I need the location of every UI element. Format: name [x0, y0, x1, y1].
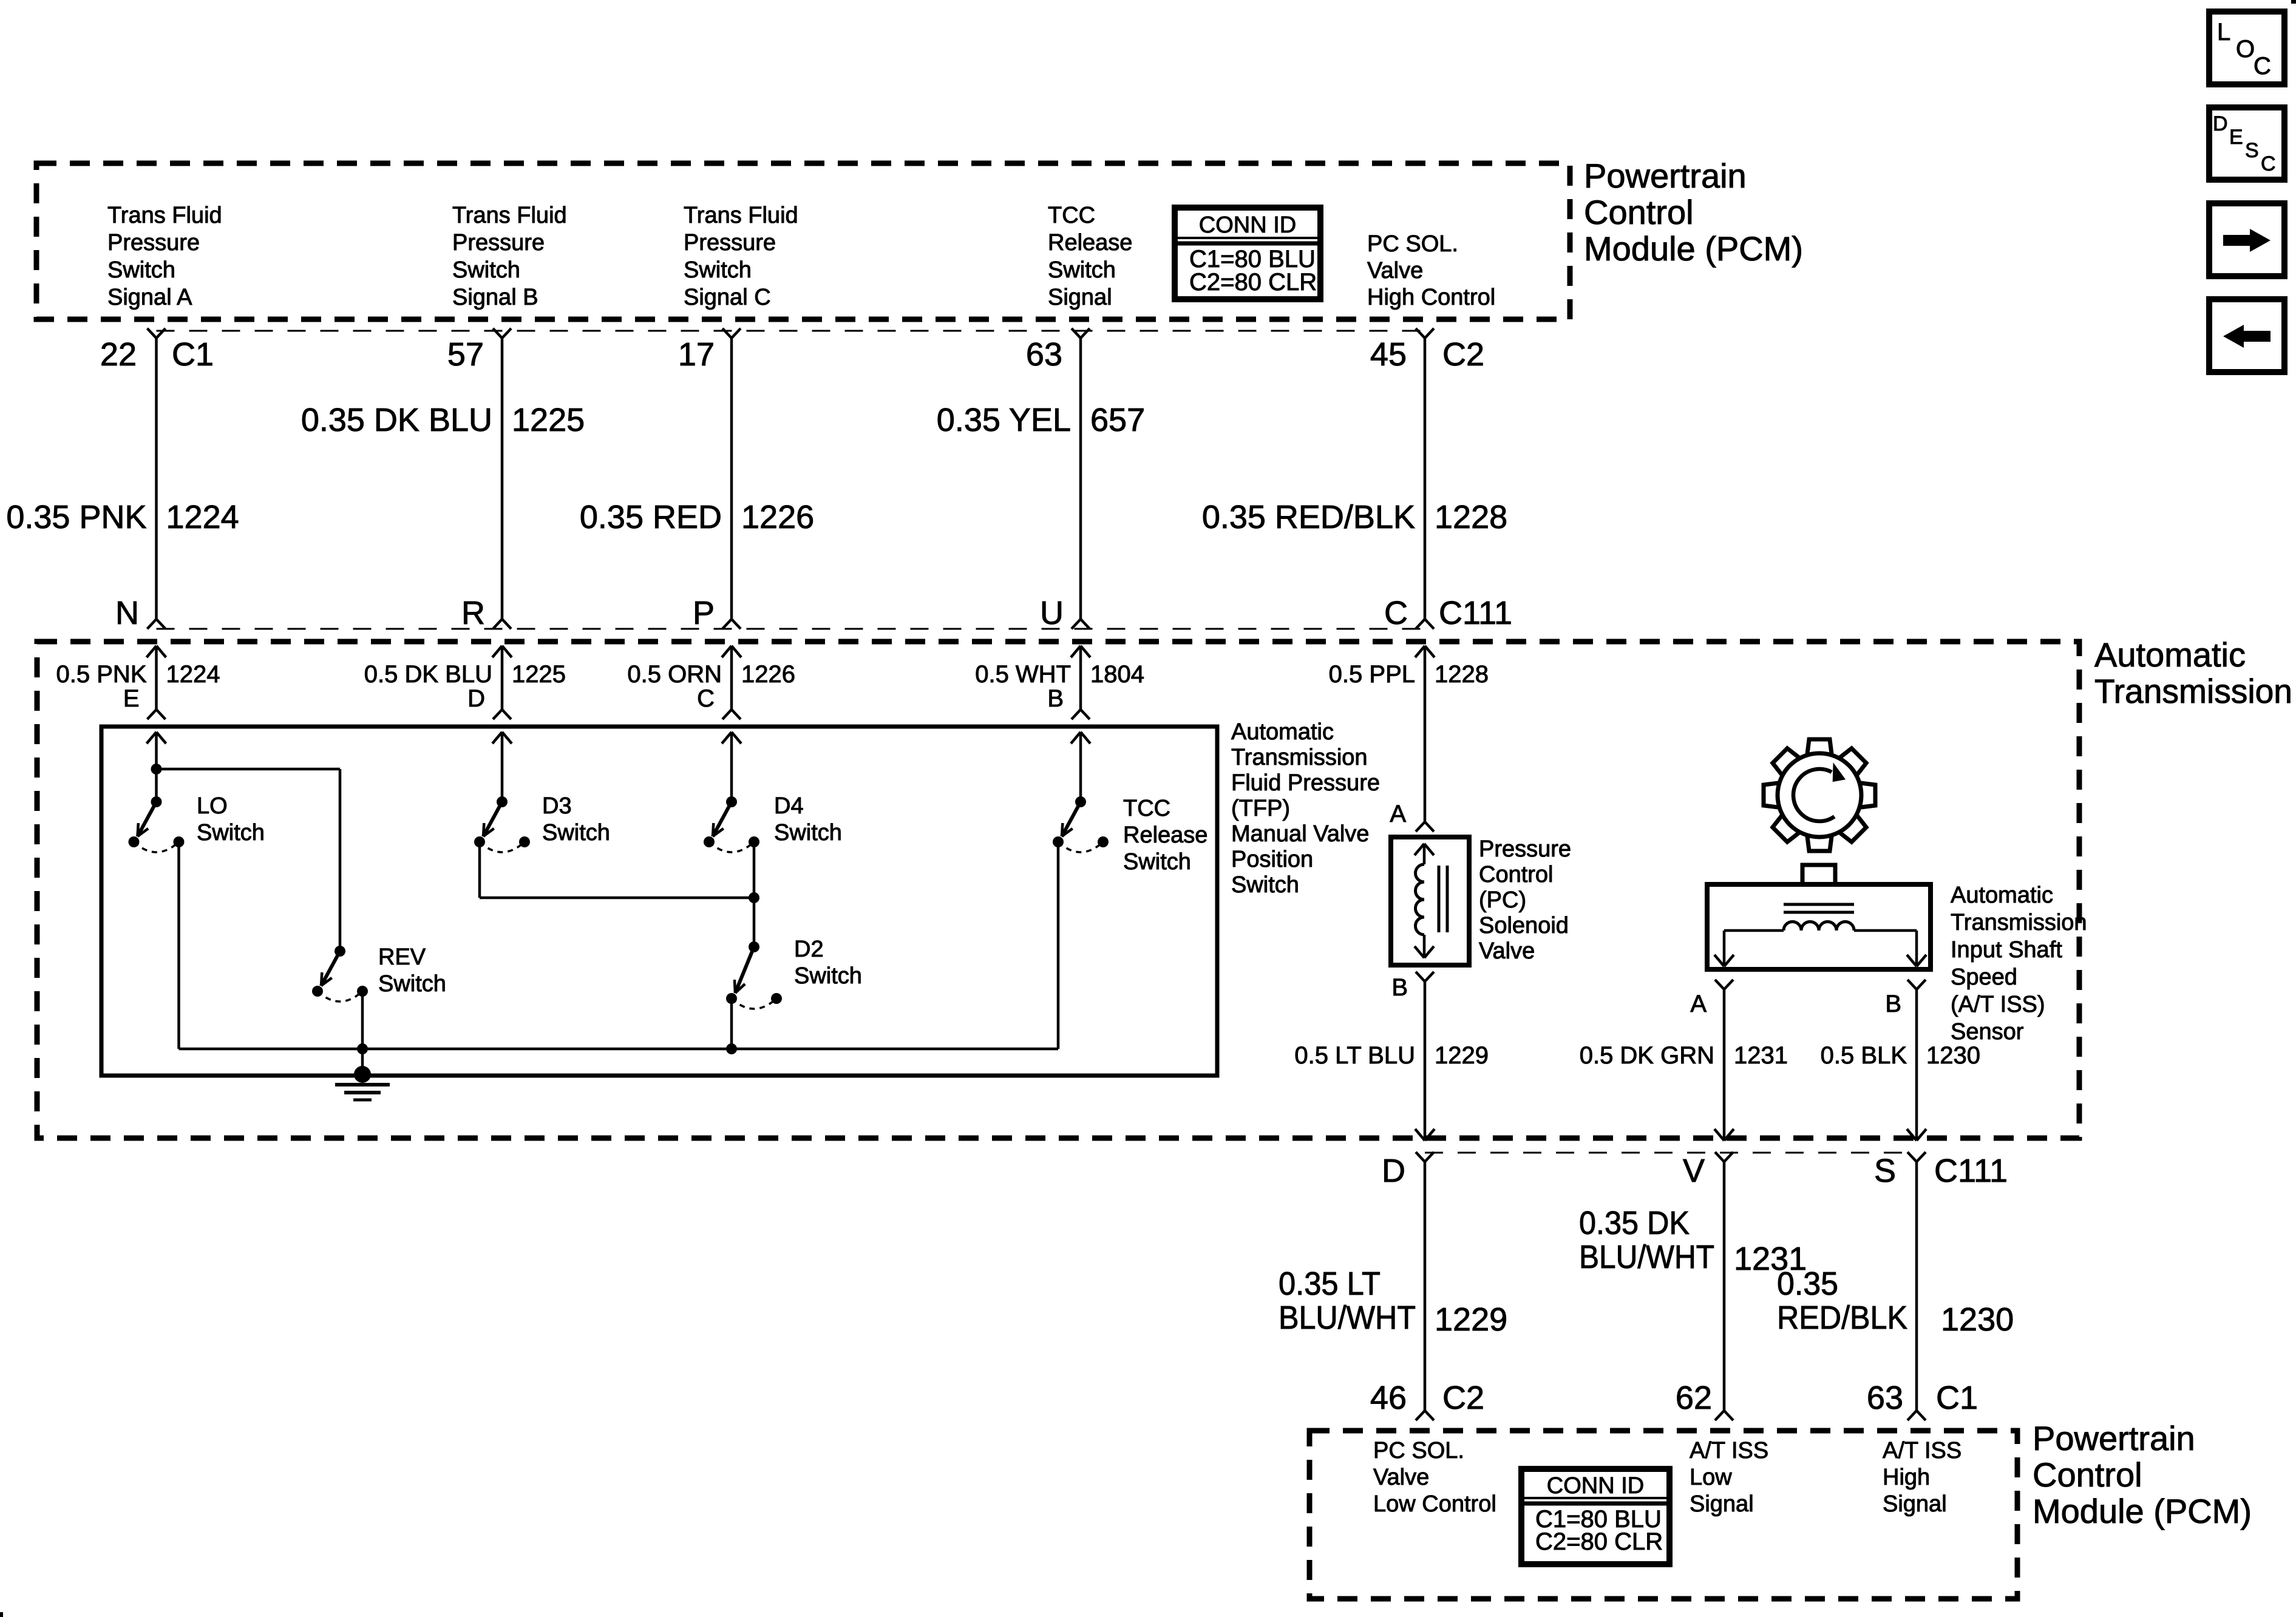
svg-text:0.35 DK: 0.35 DK: [1579, 1205, 1690, 1241]
svg-text:D3: D3: [542, 793, 572, 819]
label 0.35 LT BLU/WHT 1229: [1279, 1266, 1507, 1338]
svg-text:0.35 DK BLU: 0.35 DK BLU: [301, 402, 492, 438]
label Pressure Control (PC) Solenoid Valve: [1479, 836, 1571, 964]
svg-text:1226: 1226: [741, 499, 814, 535]
svg-text:Fluid Pressure: Fluid Pressure: [1231, 770, 1380, 796]
label PC SOL. Valve High Control: [1367, 231, 1495, 310]
svg-text:Switch: Switch: [197, 820, 265, 846]
label 0.35 DK BLU/WHT 1231: [1579, 1205, 1807, 1277]
wire 0.5 WHT 1804 / pin B: [1071, 646, 1090, 719]
icon box DESC: [2209, 107, 2284, 180]
svg-text:0.5 DK GRN: 0.5 DK GRN: [1580, 1042, 1714, 1069]
svg-text:Manual Valve: Manual Valve: [1231, 821, 1369, 847]
svg-text:C2: C2: [1442, 1380, 1484, 1416]
A/T ISS sensor core and coil: [1714, 904, 1926, 966]
svg-text:Solenoid: Solenoid: [1479, 913, 1569, 938]
svg-text:Signal C: Signal C: [684, 285, 771, 310]
svg-text:Trans Fluid: Trans Fluid: [107, 203, 222, 228]
svg-text:1226: 1226: [741, 661, 795, 688]
switch D2: [726, 941, 782, 1009]
label Powertrain Control Module (PCM) bottom: [2033, 1419, 2252, 1530]
ground: [335, 1049, 390, 1100]
svg-text:A/T ISS: A/T ISS: [1883, 1438, 1961, 1463]
svg-text:O: O: [2236, 36, 2255, 63]
svg-text:Switch: Switch: [542, 820, 610, 846]
svg-text:657: 657: [1090, 402, 1145, 438]
svg-text:0.35 YEL: 0.35 YEL: [937, 402, 1071, 438]
svg-text:0.5 PPL: 0.5 PPL: [1329, 661, 1415, 688]
wire 0.35 RED 1226 (pin17 to C111 P): [722, 328, 741, 629]
wire 0.5 PPL 1228 to PC solenoid pin A: [1415, 646, 1435, 832]
switch REV: [312, 946, 368, 1002]
label 0.5 DK BLU 1225 D: [364, 661, 566, 712]
svg-text:Pressure: Pressure: [1479, 836, 1571, 862]
svg-text:Automatic: Automatic: [1951, 883, 2053, 908]
label TCC Release Switch: [1123, 796, 1207, 875]
svg-text:Automatic: Automatic: [1231, 719, 1334, 745]
svg-text:1224: 1224: [166, 661, 220, 688]
svg-text:A: A: [1390, 801, 1406, 827]
svg-text:1230: 1230: [1926, 1042, 1980, 1069]
svg-text:Automatic: Automatic: [2094, 636, 2246, 674]
connector ID table (bottom): [1521, 1469, 1669, 1564]
svg-text:1225: 1225: [512, 402, 585, 438]
PCM module box (bottom): [1309, 1431, 2017, 1599]
label 0.35 PNK 1224: [6, 499, 239, 535]
label 0.35 RED/BLK 1230: [1777, 1266, 2014, 1338]
label 0.5 DK GRN 1231: [1580, 1042, 1788, 1069]
wire D2 left contact down: [730, 998, 733, 1049]
svg-text:Switch: Switch: [1231, 872, 1299, 898]
svg-text:B: B: [1391, 974, 1408, 1001]
svg-text:Speed: Speed: [1951, 964, 2017, 990]
svg-text:P: P: [693, 595, 715, 631]
svg-text:Signal: Signal: [1883, 1491, 1947, 1517]
svg-text:0.35 LT: 0.35 LT: [1279, 1266, 1381, 1302]
svg-text:N: N: [115, 595, 139, 631]
wire LO junction to REV switch: [157, 769, 341, 951]
svg-text:D4: D4: [774, 793, 804, 819]
label TCC Release Switch Signal: [1048, 203, 1132, 310]
pin 57: [447, 336, 484, 373]
svg-text:RED/BLK: RED/BLK: [1777, 1300, 1907, 1336]
svg-text:Pressure: Pressure: [684, 230, 776, 256]
svg-text:B: B: [1047, 685, 1064, 712]
svg-text:REV: REV: [378, 944, 426, 970]
svg-text:Valve: Valve: [1479, 938, 1535, 964]
svg-text:C2=80 CLR: C2=80 CLR: [1535, 1528, 1663, 1555]
wire 0.35 DK BLU 1225 (pin57 to C111 R): [493, 328, 511, 629]
switch D3: [474, 796, 530, 852]
svg-text:LO: LO: [197, 793, 228, 819]
svg-text:1228: 1228: [1435, 661, 1489, 688]
svg-text:1225: 1225: [512, 661, 566, 688]
connector plane C111 lower (dashed): [1425, 1152, 1917, 1154]
wire 0.35 RED/BLK 1228 (pin45 to C111 C): [1416, 328, 1434, 629]
pin 22 C1: [100, 336, 214, 373]
svg-text:BLU/WHT: BLU/WHT: [1579, 1239, 1714, 1275]
svg-text:1229: 1229: [1435, 1042, 1489, 1069]
TFP manual valve position switch box: [101, 727, 1217, 1076]
label 0.5 ORN 1226 C: [627, 661, 795, 712]
PCM module box (top): [36, 163, 1570, 319]
label Automatic Transmission Input Shaft Speed (A/T ISS) Sensor: [1951, 883, 2087, 1045]
svg-text:0.35 PNK: 0.35 PNK: [6, 499, 146, 535]
svg-text:Signal: Signal: [1048, 285, 1112, 310]
svg-text:46: 46: [1370, 1380, 1407, 1416]
svg-text:Switch: Switch: [452, 257, 520, 283]
svg-text:B: B: [1885, 991, 1901, 1017]
wire 0.5 DK GRN 1231 (ISS A down): [1714, 980, 1734, 1141]
label 0.5 WHT 1804 B: [975, 661, 1144, 712]
svg-text:57: 57: [447, 336, 484, 373]
wire into LO switch: [147, 732, 166, 802]
svg-text:1229: 1229: [1435, 1301, 1507, 1338]
svg-text:Pressure: Pressure: [452, 230, 545, 256]
label 0.35 DK BLU 1225: [301, 402, 585, 438]
label Automatic Transmission: [2094, 636, 2292, 710]
svg-text:(A/T ISS): (A/T ISS): [1951, 992, 2045, 1017]
switch D4: [704, 796, 759, 852]
svg-text:63: 63: [1867, 1380, 1903, 1416]
svg-text:Release: Release: [1123, 822, 1207, 848]
svg-text:Signal: Signal: [1690, 1491, 1754, 1517]
svg-text:C1: C1: [1936, 1380, 1978, 1416]
svg-text:Valve: Valve: [1367, 258, 1423, 283]
svg-text:L: L: [2217, 19, 2230, 46]
svg-text:45: 45: [1370, 336, 1407, 373]
label 0.5 LT BLU 1229: [1294, 1042, 1489, 1069]
svg-text:S: S: [2245, 139, 2259, 162]
svg-text:C: C: [697, 685, 715, 712]
svg-text:Switch: Switch: [684, 257, 752, 283]
svg-text:CONN ID: CONN ID: [1547, 1473, 1644, 1499]
wire 0.5 DK BLU 1225 / pin D: [492, 646, 512, 719]
pin A label (ISS): [1690, 991, 1707, 1017]
wire 0.5 ORN 1226 / pin C: [722, 646, 741, 719]
pin 62: [1676, 1380, 1712, 1416]
svg-text:(TFP): (TFP): [1231, 796, 1290, 821]
node P: [693, 595, 715, 631]
pin 63: [1026, 336, 1062, 373]
wire 0.5 LT BLU 1229 (PC sol B down): [1415, 972, 1435, 1141]
svg-text:A/T ISS: A/T ISS: [1690, 1438, 1768, 1463]
svg-text:Switch: Switch: [794, 963, 862, 989]
svg-text:0.35: 0.35: [1777, 1266, 1838, 1302]
svg-text:0.5 PNK: 0.5 PNK: [56, 661, 147, 688]
svg-text:C2: C2: [1442, 336, 1484, 373]
svg-text:0.5 WHT: 0.5 WHT: [975, 661, 1071, 688]
wire LO right contact down: [177, 842, 180, 1049]
wire 0.5 BLK 1230 (ISS B down): [1907, 980, 1926, 1141]
svg-text:Powertrain: Powertrain: [2033, 1419, 2195, 1457]
svg-text:V: V: [1683, 1153, 1705, 1189]
svg-text:Input Shaft: Input Shaft: [1951, 937, 2062, 963]
svg-text:C: C: [1384, 595, 1408, 631]
pin B label (PC solenoid): [1391, 974, 1408, 1001]
svg-text:C111: C111: [1934, 1153, 2008, 1189]
pin 46 C2: [1370, 1380, 1484, 1416]
svg-text:D2: D2: [794, 937, 824, 962]
pin 17: [678, 336, 715, 373]
svg-text:1230: 1230: [1941, 1301, 2014, 1338]
svg-text:Switch: Switch: [107, 257, 175, 283]
PC solenoid valve box: [1391, 837, 1469, 965]
svg-text:BLU/WHT: BLU/WHT: [1279, 1300, 1416, 1336]
svg-text:D: D: [1382, 1153, 1405, 1189]
label A/T ISS Low Signal: [1690, 1438, 1768, 1517]
svg-text:0.5 DK BLU: 0.5 DK BLU: [364, 661, 492, 688]
gear icon (rotating input shaft): [1764, 739, 1875, 851]
svg-text:Low: Low: [1690, 1465, 1732, 1490]
wire 0.35 LT BLU/WHT 1229: [1416, 1152, 1434, 1420]
svg-text:TCC: TCC: [1048, 203, 1095, 228]
svg-text:U: U: [1040, 595, 1064, 631]
svg-text:A: A: [1690, 991, 1707, 1017]
svg-text:C111: C111: [1439, 595, 1512, 631]
label Powertrain Control Module (PCM) top: [1584, 157, 1803, 268]
wire 0.35 DK BLU/WHT 1231: [1715, 1152, 1733, 1420]
svg-text:Trans Fluid: Trans Fluid: [452, 203, 567, 228]
svg-text:62: 62: [1676, 1380, 1712, 1416]
svg-text:Transmission: Transmission: [1951, 910, 2087, 935]
svg-text:1228: 1228: [1435, 499, 1507, 535]
label 0.35 YEL 657: [937, 402, 1145, 438]
wire 0.35 RED/BLK 1230: [1907, 1152, 1926, 1420]
wire D3 left contact to D4 chain: [480, 842, 759, 903]
border tick top-right: [2291, 0, 2296, 4]
svg-text:Control: Control: [1584, 193, 1694, 231]
svg-text:C: C: [2254, 53, 2271, 80]
label REV Switch: [378, 944, 446, 997]
label D4 Switch: [774, 793, 842, 846]
svg-text:C1: C1: [172, 336, 214, 373]
A/T ISS sensor box: [1707, 884, 1931, 969]
wire into TCC release switch: [1071, 732, 1090, 802]
label D2 Switch: [794, 937, 862, 989]
svg-text:D: D: [2213, 112, 2228, 135]
switch TCC release: [1053, 796, 1109, 852]
svg-text:PC SOL.: PC SOL.: [1373, 1438, 1464, 1463]
label Trans Fluid Pressure Switch Signal B: [452, 203, 567, 310]
svg-text:63: 63: [1026, 336, 1062, 373]
switch LO: [129, 796, 185, 852]
svg-text:C2=80 CLR: C2=80 CLR: [1189, 269, 1317, 296]
svg-text:Low Control: Low Control: [1373, 1491, 1496, 1517]
svg-text:0.35 RED: 0.35 RED: [580, 499, 722, 535]
wire REV right contact down: [361, 991, 364, 1049]
svg-text:High Control: High Control: [1367, 285, 1495, 310]
svg-text:Control: Control: [2033, 1456, 2142, 1494]
wire into D3 switch: [492, 732, 512, 802]
svg-text:Module (PCM): Module (PCM): [2033, 1492, 2252, 1530]
svg-text:1224: 1224: [166, 499, 239, 535]
A/T ISS sensor nub: [1802, 865, 1835, 884]
label Trans Fluid Pressure Switch Signal A: [107, 203, 222, 310]
svg-text:C: C: [2261, 152, 2276, 175]
icon box arrow right: [2209, 203, 2284, 276]
svg-text:Switch: Switch: [1123, 849, 1191, 875]
svg-text:0.35 RED/BLK: 0.35 RED/BLK: [1202, 499, 1415, 535]
svg-text:Valve: Valve: [1373, 1465, 1429, 1490]
pin B label (ISS): [1885, 991, 1901, 1017]
label PC SOL. Valve Low Control: [1373, 1438, 1496, 1517]
wire 0.5 PNK 1224 / pin E: [147, 646, 166, 719]
svg-text:1804: 1804: [1090, 661, 1144, 688]
connector plane C1/C2 (dashed): [157, 330, 1425, 332]
label LO Switch: [197, 793, 265, 846]
wire D4 right contact down to D2: [753, 842, 756, 947]
svg-text:Switch: Switch: [1048, 257, 1116, 283]
svg-text:S: S: [1874, 1153, 1896, 1189]
node S / connector C111: [1874, 1153, 2008, 1189]
connector plane C111 (dashed): [157, 628, 1425, 630]
svg-text:Powertrain: Powertrain: [1584, 157, 1747, 195]
label A/T ISS High Signal: [1883, 1438, 1961, 1517]
svg-text:Switch: Switch: [378, 971, 446, 997]
label 0.35 RED 1226: [580, 499, 814, 535]
label D3 Switch: [542, 793, 610, 846]
svg-text:Pressure: Pressure: [107, 230, 200, 256]
connector ID table (top): [1175, 208, 1320, 299]
label Trans Fluid Pressure Switch Signal C: [684, 203, 798, 310]
label 0.5 PNK 1224 E: [56, 661, 220, 712]
svg-text:Position: Position: [1231, 847, 1313, 872]
svg-text:Switch: Switch: [774, 820, 842, 846]
svg-text:17: 17: [678, 336, 715, 373]
icon box arrow left: [2209, 299, 2284, 372]
node R: [461, 595, 485, 631]
svg-text:0.5 ORN: 0.5 ORN: [627, 661, 722, 688]
node V (C111): [1683, 1153, 1705, 1189]
svg-text:Signal A: Signal A: [107, 285, 192, 310]
pin 45 C2: [1370, 336, 1484, 373]
svg-text:D: D: [467, 685, 485, 712]
svg-text:Sensor: Sensor: [1951, 1019, 2024, 1045]
svg-text:R: R: [461, 595, 485, 631]
label 0.35 RED/BLK 1228: [1202, 499, 1507, 535]
label 0.5 PPL 1228: [1329, 661, 1489, 688]
wire switch common bus: [179, 1043, 1059, 1054]
svg-text:Trans Fluid: Trans Fluid: [684, 203, 798, 228]
svg-text:0.5 BLK: 0.5 BLK: [1821, 1042, 1907, 1069]
svg-text:1231: 1231: [1734, 1042, 1788, 1069]
wire 0.35 PNK 1224 (pin22 to C111 N): [148, 328, 166, 629]
svg-text:E: E: [123, 685, 140, 712]
svg-text:Transmission: Transmission: [2094, 672, 2292, 710]
pin 63 C1: [1867, 1380, 1978, 1416]
svg-text:Signal B: Signal B: [452, 285, 538, 310]
border tick bottom-left: [0, 1612, 3, 1617]
node U: [1040, 595, 1064, 631]
svg-text:High: High: [1883, 1465, 1930, 1490]
svg-text:0.5 LT BLU: 0.5 LT BLU: [1294, 1042, 1415, 1069]
svg-text:CONN ID: CONN ID: [1199, 212, 1296, 238]
wire into D4 switch: [722, 732, 741, 802]
Automatic Transmission box: [37, 642, 2079, 1138]
label 0.5 BLK 1230: [1821, 1042, 1980, 1069]
svg-text:Transmission: Transmission: [1231, 745, 1368, 770]
svg-text:Control: Control: [1479, 862, 1554, 887]
svg-text:Release: Release: [1048, 230, 1132, 256]
svg-text:TCC: TCC: [1123, 796, 1170, 821]
svg-text:(PC): (PC): [1479, 887, 1526, 913]
node D (C111): [1382, 1153, 1405, 1189]
wire TCC left contact down: [1057, 842, 1060, 1049]
svg-text:Module (PCM): Module (PCM): [1584, 229, 1803, 268]
svg-text:22: 22: [100, 336, 137, 373]
PC solenoid coil: [1415, 844, 1447, 958]
pin A label (PC solenoid): [1390, 801, 1406, 827]
label Automatic Transmission Fluid Pressure (TFP) Manual Valve Position Switch: [1231, 719, 1380, 898]
icon box LOC: [2209, 12, 2284, 84]
node C / connector C111: [1384, 595, 1512, 631]
svg-text:E: E: [2229, 126, 2243, 149]
wire 0.35 YEL 657 (pin63 to C111 U): [1072, 328, 1090, 629]
node N: [115, 595, 139, 631]
svg-text:PC SOL.: PC SOL.: [1367, 231, 1458, 257]
